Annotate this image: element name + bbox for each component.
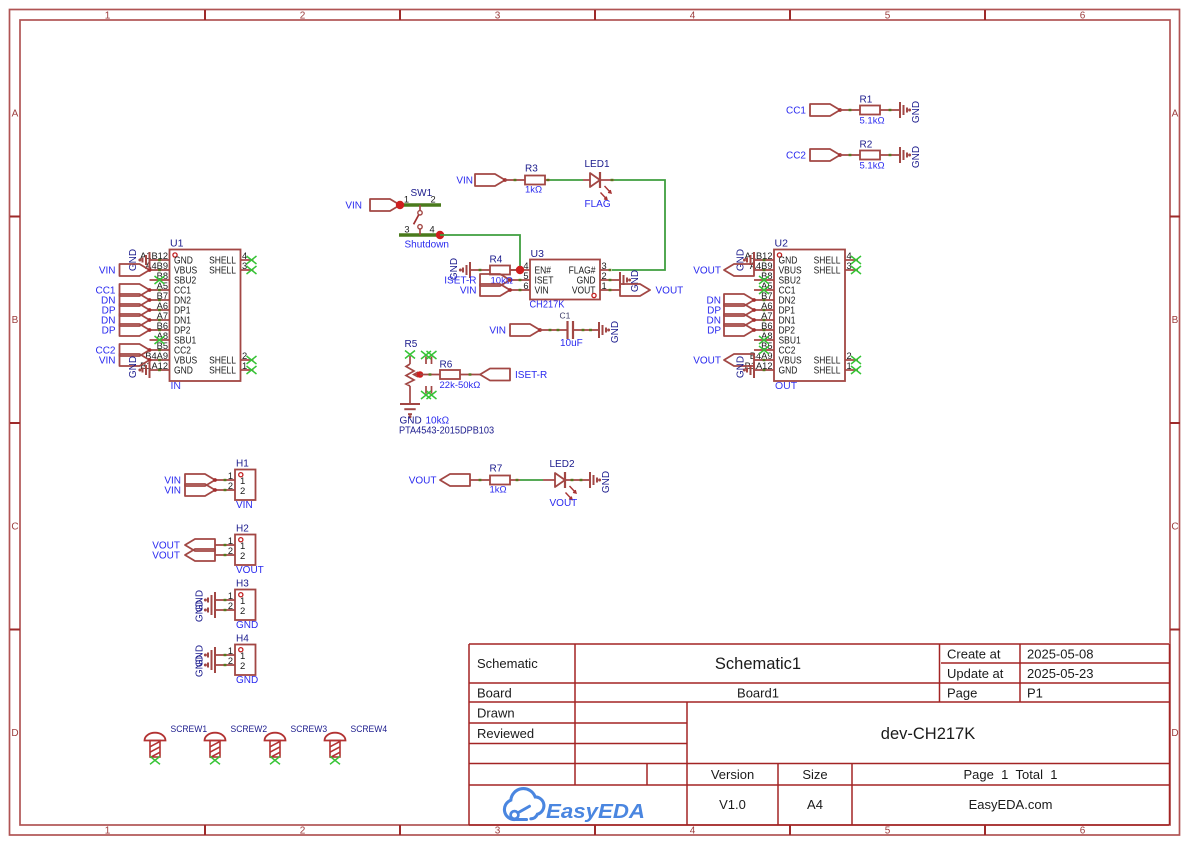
svg-text:GND: GND [174,366,193,377]
svg-text:R5: R5 [405,339,418,350]
svg-text:Board1: Board1 [737,686,779,701]
net flag VIN at U1 pin B4A9 [99,354,152,367]
svg-text:2: 2 [228,601,233,611]
svg-text:1: 1 [242,361,247,371]
resistor R6 [440,360,481,392]
svg-text:GND: GND [195,655,206,677]
wire CC1 to R1 [840,109,860,111]
net flag DP at U2 pin B6 [707,324,756,337]
svg-text:2: 2 [300,11,306,22]
svg-text:1: 1 [228,646,233,656]
wire R5 wiper to R6 [420,373,440,375]
resistor R7 [490,464,511,496]
net flag VOUT at H2 pin 2 [152,549,215,562]
svg-text:B: B [1172,315,1179,326]
junction at SW1 pin 4 [436,231,444,239]
wire R4 to U3 EN# [511,269,521,271]
svg-text:2025-05-08: 2025-05-08 [1027,647,1094,662]
net flag DP at U1 pin A6 [102,304,152,317]
ground at U1 pin A1B12 [128,249,150,271]
svg-text:GND: GND [236,675,258,686]
svg-text:R1: R1 [860,95,873,106]
ground at R5 [400,404,420,418]
svg-text:C1: C1 [560,311,571,321]
svg-text:VIN: VIN [99,266,116,277]
junction at R5 wiper [417,371,424,378]
svg-text:GND: GND [128,249,139,271]
svg-text:U2: U2 [775,238,789,250]
svg-text:GND: GND [128,356,139,378]
svg-text:Drawn: Drawn [477,706,515,721]
label GND under H3 [236,620,258,631]
ground at U1 pin B1A12 [128,356,150,378]
wire VIN to C1 [540,329,567,331]
net flag VIN at R3 [456,174,507,187]
svg-text:DP: DP [102,326,116,337]
svg-text:B7: B7 [157,291,168,301]
IC U3 CH217K [510,248,620,300]
svg-text:A7: A7 [761,311,772,321]
wire R3 to LED1 [546,179,591,181]
resistor R4 [490,255,511,275]
svg-text:Schematic1: Schematic1 [715,655,801,673]
svg-text:1kΩ: 1kΩ [525,185,542,196]
svg-text:R6: R6 [440,360,453,371]
label GND value 10k ohm [400,416,450,427]
svg-text:1: 1 [228,536,233,546]
wire VIN to R3 [505,179,525,181]
wire R7 to LED2 [511,479,556,481]
ground at R2 [900,146,922,168]
label VIN under H1 [236,500,253,511]
svg-text:H1: H1 [236,459,249,470]
no-connect U2 pin A5 [759,286,769,294]
svg-text:VOUT: VOUT [409,476,437,487]
net flag DN at U1 pin A7 [101,314,151,327]
label OUT under U2 [775,380,798,392]
svg-text:ISET-R: ISET-R [515,370,547,381]
svg-text:LED1: LED1 [585,159,610,170]
resistor R1 [860,95,885,127]
svg-text:U3: U3 [531,248,545,260]
svg-text:4: 4 [430,225,435,235]
svg-text:1: 1 [228,471,233,481]
svg-text:6: 6 [1080,826,1086,837]
connector U1 body [140,238,253,382]
svg-text:DP: DP [707,326,721,337]
svg-text:6: 6 [1080,11,1086,22]
svg-text:VIN: VIN [345,201,362,212]
svg-text:P1: P1 [1027,686,1043,701]
svg-text:VIN: VIN [456,176,473,187]
screw SCREW2 [205,724,268,764]
svg-text:5.1kΩ: 5.1kΩ [860,161,885,172]
svg-text:GND: GND [195,600,206,622]
svg-text:5: 5 [885,11,891,22]
svg-text:4: 4 [847,251,852,261]
svg-text:B: B [12,315,19,326]
svg-text:FLAG: FLAG [585,199,611,210]
svg-text:GND: GND [736,356,747,378]
frame row labels [11,109,1178,740]
potentiometer R5 [405,339,432,404]
svg-text:5.1kΩ: 5.1kΩ [860,116,885,127]
svg-text:R3: R3 [525,164,538,175]
svg-text:D: D [11,728,18,739]
junction at SW1 pin 1 [396,201,404,209]
no-connect U1 pin B8 [155,276,165,284]
svg-text:2: 2 [242,351,247,361]
ground at LED2 [590,471,612,493]
svg-text:PTA4543-2015DPB103: PTA4543-2015DPB103 [399,426,494,437]
svg-text:V1.0: V1.0 [719,797,746,812]
svg-text:SHELL: SHELL [814,266,841,277]
svg-text:VIN: VIN [460,286,477,297]
wire C1 to GND [573,329,599,331]
LED LED1 [585,159,612,200]
net flag CC1 at U1 pin A5 [95,284,151,297]
svg-text:A: A [12,109,19,120]
svg-text:EasyEDA: EasyEDA [546,801,645,823]
ground at R1 [900,101,922,123]
svg-text:4: 4 [690,826,696,837]
svg-text:5: 5 [523,271,528,281]
value 10k ohm of R4 [491,276,513,287]
ground at H4 pin 1 [195,645,216,667]
net flag VOUT at R7 [409,474,470,487]
ground at H3 pin 2 [195,600,216,622]
net flag VOUT at U3 VOUT [620,284,683,297]
header H2 [215,524,256,566]
svg-text:VIN: VIN [236,500,253,511]
ground at H4 pin 2 [195,655,216,677]
svg-text:A4: A4 [807,797,823,812]
svg-text:B6: B6 [761,321,772,331]
header H4 [215,634,256,676]
svg-text:GND: GND [736,249,747,271]
ground at U3 GND [620,270,641,292]
svg-text:VIN: VIN [489,326,506,337]
label IN under U1 [171,380,182,392]
svg-text:4: 4 [690,11,696,22]
svg-text:GND: GND [779,366,798,377]
svg-text:GND: GND [630,270,641,292]
svg-text:1: 1 [404,195,409,205]
svg-text:5: 5 [885,826,891,837]
svg-text:B6: B6 [157,321,168,331]
svg-text:Update at: Update at [947,666,1004,681]
svg-text:3: 3 [242,261,247,271]
svg-text:C: C [11,522,18,533]
net flag VIN at C1 [489,324,542,337]
svg-text:SHELL: SHELL [209,266,236,277]
svg-text:SCREW3: SCREW3 [291,724,328,734]
svg-text:4: 4 [242,251,247,261]
wire R6 to ISET-R [461,373,481,375]
no-connect marks U2 shell pins [851,256,861,374]
svg-text:GND: GND [601,471,612,493]
svg-text:3: 3 [495,826,501,837]
svg-text:U1: U1 [170,238,184,250]
ground at H3 pin 1 [195,590,216,612]
svg-text:A6: A6 [157,301,168,311]
net flag DN at U2 pin B7 [707,294,756,307]
net flag VIN at U1 pin A4B9 [99,264,152,277]
wire R2 to GND [881,154,901,156]
svg-text:A: A [1172,109,1179,120]
value CH217K [530,299,565,311]
svg-text:2: 2 [602,271,607,281]
svg-text:1: 1 [602,281,607,291]
svg-text:2: 2 [240,661,245,672]
net flag DP at U1 pin B6 [102,324,152,337]
svg-text:VOUT: VOUT [236,565,264,576]
net flag VOUT at H2 pin 1 [152,539,215,552]
svg-text:GND: GND [610,321,621,343]
svg-text:Board: Board [477,686,512,701]
title block text [477,647,1094,813]
svg-text:SCREW2: SCREW2 [231,724,268,734]
svg-text:H4: H4 [236,634,249,645]
svg-text:1: 1 [105,826,111,837]
svg-text:SW1: SW1 [411,188,433,199]
svg-text:A1B12: A1B12 [745,251,773,261]
svg-text:22k-50kΩ: 22k-50kΩ [440,380,481,391]
svg-text:GND: GND [911,146,922,168]
junction at U3 EN# [516,266,524,274]
svg-text:SCREW1: SCREW1 [171,724,208,734]
svg-text:SCREW4: SCREW4 [351,724,388,734]
net flag CC1 [786,104,842,117]
net flag ISET-R at R6 [480,369,547,382]
svg-text:Create at: Create at [947,647,1001,662]
label GND under H4 [236,675,258,686]
svg-text:VIN: VIN [164,486,181,497]
svg-text:VOUT: VOUT [152,551,180,562]
svg-text:3: 3 [495,11,501,22]
switch SW1 [399,188,441,235]
header H3 [215,579,256,621]
wire LED1 cathode [600,179,614,181]
svg-text:LED2: LED2 [550,459,575,470]
svg-text:6: 6 [523,281,528,291]
svg-text:C: C [1171,522,1178,533]
svg-text:Page: Page [947,686,977,701]
svg-text:VIN: VIN [99,356,116,367]
svg-text:Shutdown: Shutdown [405,240,449,251]
net flag CC2 [786,149,842,162]
no-connect U2 pin A8 [759,336,769,344]
svg-text:2: 2 [847,351,852,361]
svg-text:Page 1 Total 1: Page 1 Total 1 [964,767,1058,782]
screw SCREW4 [325,724,388,764]
wire LED2 to GND [565,479,590,481]
svg-text:10uF: 10uF [560,338,583,349]
svg-text:R2: R2 [860,140,873,151]
svg-text:Schematic: Schematic [477,656,538,671]
svg-text:2025-05-23: 2025-05-23 [1027,666,1094,681]
net label FLAG [585,199,611,210]
svg-text:VOUT: VOUT [656,286,684,297]
svg-text:GND: GND [911,101,922,123]
net flag DN at U1 pin B7 [101,294,151,307]
svg-text:1: 1 [847,361,852,371]
label PTA4543-2015DPB103 [399,426,494,437]
svg-text:2: 2 [228,546,233,556]
svg-text:A1B12: A1B12 [140,251,168,261]
net flag VIN at U3 VIN [460,284,512,297]
svg-text:SHELL: SHELL [209,366,236,377]
svg-text:R7: R7 [490,464,503,475]
svg-text:CC2: CC2 [786,151,806,162]
net flag VIN at H1 pin 2 [164,484,217,497]
svg-text:D: D [1171,728,1178,739]
resistor R3 [525,164,545,196]
svg-text:3: 3 [602,261,607,271]
screw SCREW1 [145,724,208,764]
wire LED1 to U3 FLAG# [612,180,665,270]
svg-text:1: 1 [228,591,233,601]
net flag VOUT at U2 pin A4B9 [693,264,754,277]
svg-text:VOUT: VOUT [693,266,721,277]
svg-text:IN: IN [171,380,182,392]
svg-text:VOUT: VOUT [693,356,721,367]
svg-text:SHELL: SHELL [814,366,841,377]
svg-text:3: 3 [847,261,852,271]
no-connect marks R5 [405,351,437,400]
ground at C1 [599,321,621,343]
svg-text:A7: A7 [157,311,168,321]
no-connect U1 pin A8 [155,336,165,344]
svg-text:1kΩ: 1kΩ [490,485,507,496]
wire CC2 to R2 [840,154,860,156]
ground at R4 [449,258,470,280]
svg-text:2: 2 [240,486,245,497]
svg-text:2: 2 [240,551,245,562]
svg-text:VOUT: VOUT [550,498,578,509]
wire VOUT to R7 [470,479,490,481]
ground at U2 pin A1B12 [736,249,755,271]
wire GND to R4 [470,269,490,271]
wire SW1 to U3 EN# [440,235,520,270]
title block table [469,644,1170,825]
svg-text:1: 1 [105,11,111,22]
svg-text:dev-CH217K: dev-CH217K [881,725,975,743]
svg-text:GND: GND [236,620,258,631]
resistor R2 [860,140,885,172]
svg-text:EasyEDA.com: EasyEDA.com [969,797,1053,812]
net flag ISET-R at U3 ISET [444,274,512,287]
label VOUT under H2 [236,565,264,576]
net flag VIN at SW1 [345,199,402,212]
svg-text:A6: A6 [761,301,772,311]
net label Shutdown [405,240,449,251]
no-connect marks U1 shell pins [247,256,257,374]
connector U2 body [745,238,858,382]
svg-text:Version: Version [711,767,754,782]
net flag VOUT at U2 pin B4A9 [693,354,754,367]
ground at U2 pin B1A12 [736,356,755,378]
svg-text:H2: H2 [236,524,249,535]
svg-text:2: 2 [228,481,233,491]
svg-text:VIN: VIN [535,286,549,297]
svg-text:2: 2 [300,826,306,837]
LED LED2 [550,459,577,500]
net flag DN at U2 pin A7 [707,314,756,327]
svg-text:H3: H3 [236,579,249,590]
screw SCREW3 [265,724,328,764]
svg-text:OUT: OUT [775,380,798,392]
no-connect U2 pin B8 [759,276,769,284]
svg-text:Size: Size [802,767,827,782]
header H1 [215,459,256,501]
net flag DP at U2 pin A6 [707,304,756,317]
net flag CC2 at U1 pin B5 [95,344,151,357]
svg-text:R4: R4 [490,255,503,266]
svg-text:Reviewed: Reviewed [477,726,534,741]
no-connect U2 pin B5 [759,346,769,354]
svg-text:3: 3 [404,225,409,235]
svg-text:2: 2 [228,656,233,666]
EasyEDA logo [504,789,645,823]
wire R1 to GND [881,109,901,111]
capacitor C1 [560,311,583,350]
net flag VIN at H1 pin 1 [164,474,217,487]
svg-text:2: 2 [240,606,245,617]
svg-text:CC1: CC1 [786,106,806,117]
svg-text:CH217K: CH217K [530,299,565,311]
net label VOUT under LED2 [550,498,578,509]
